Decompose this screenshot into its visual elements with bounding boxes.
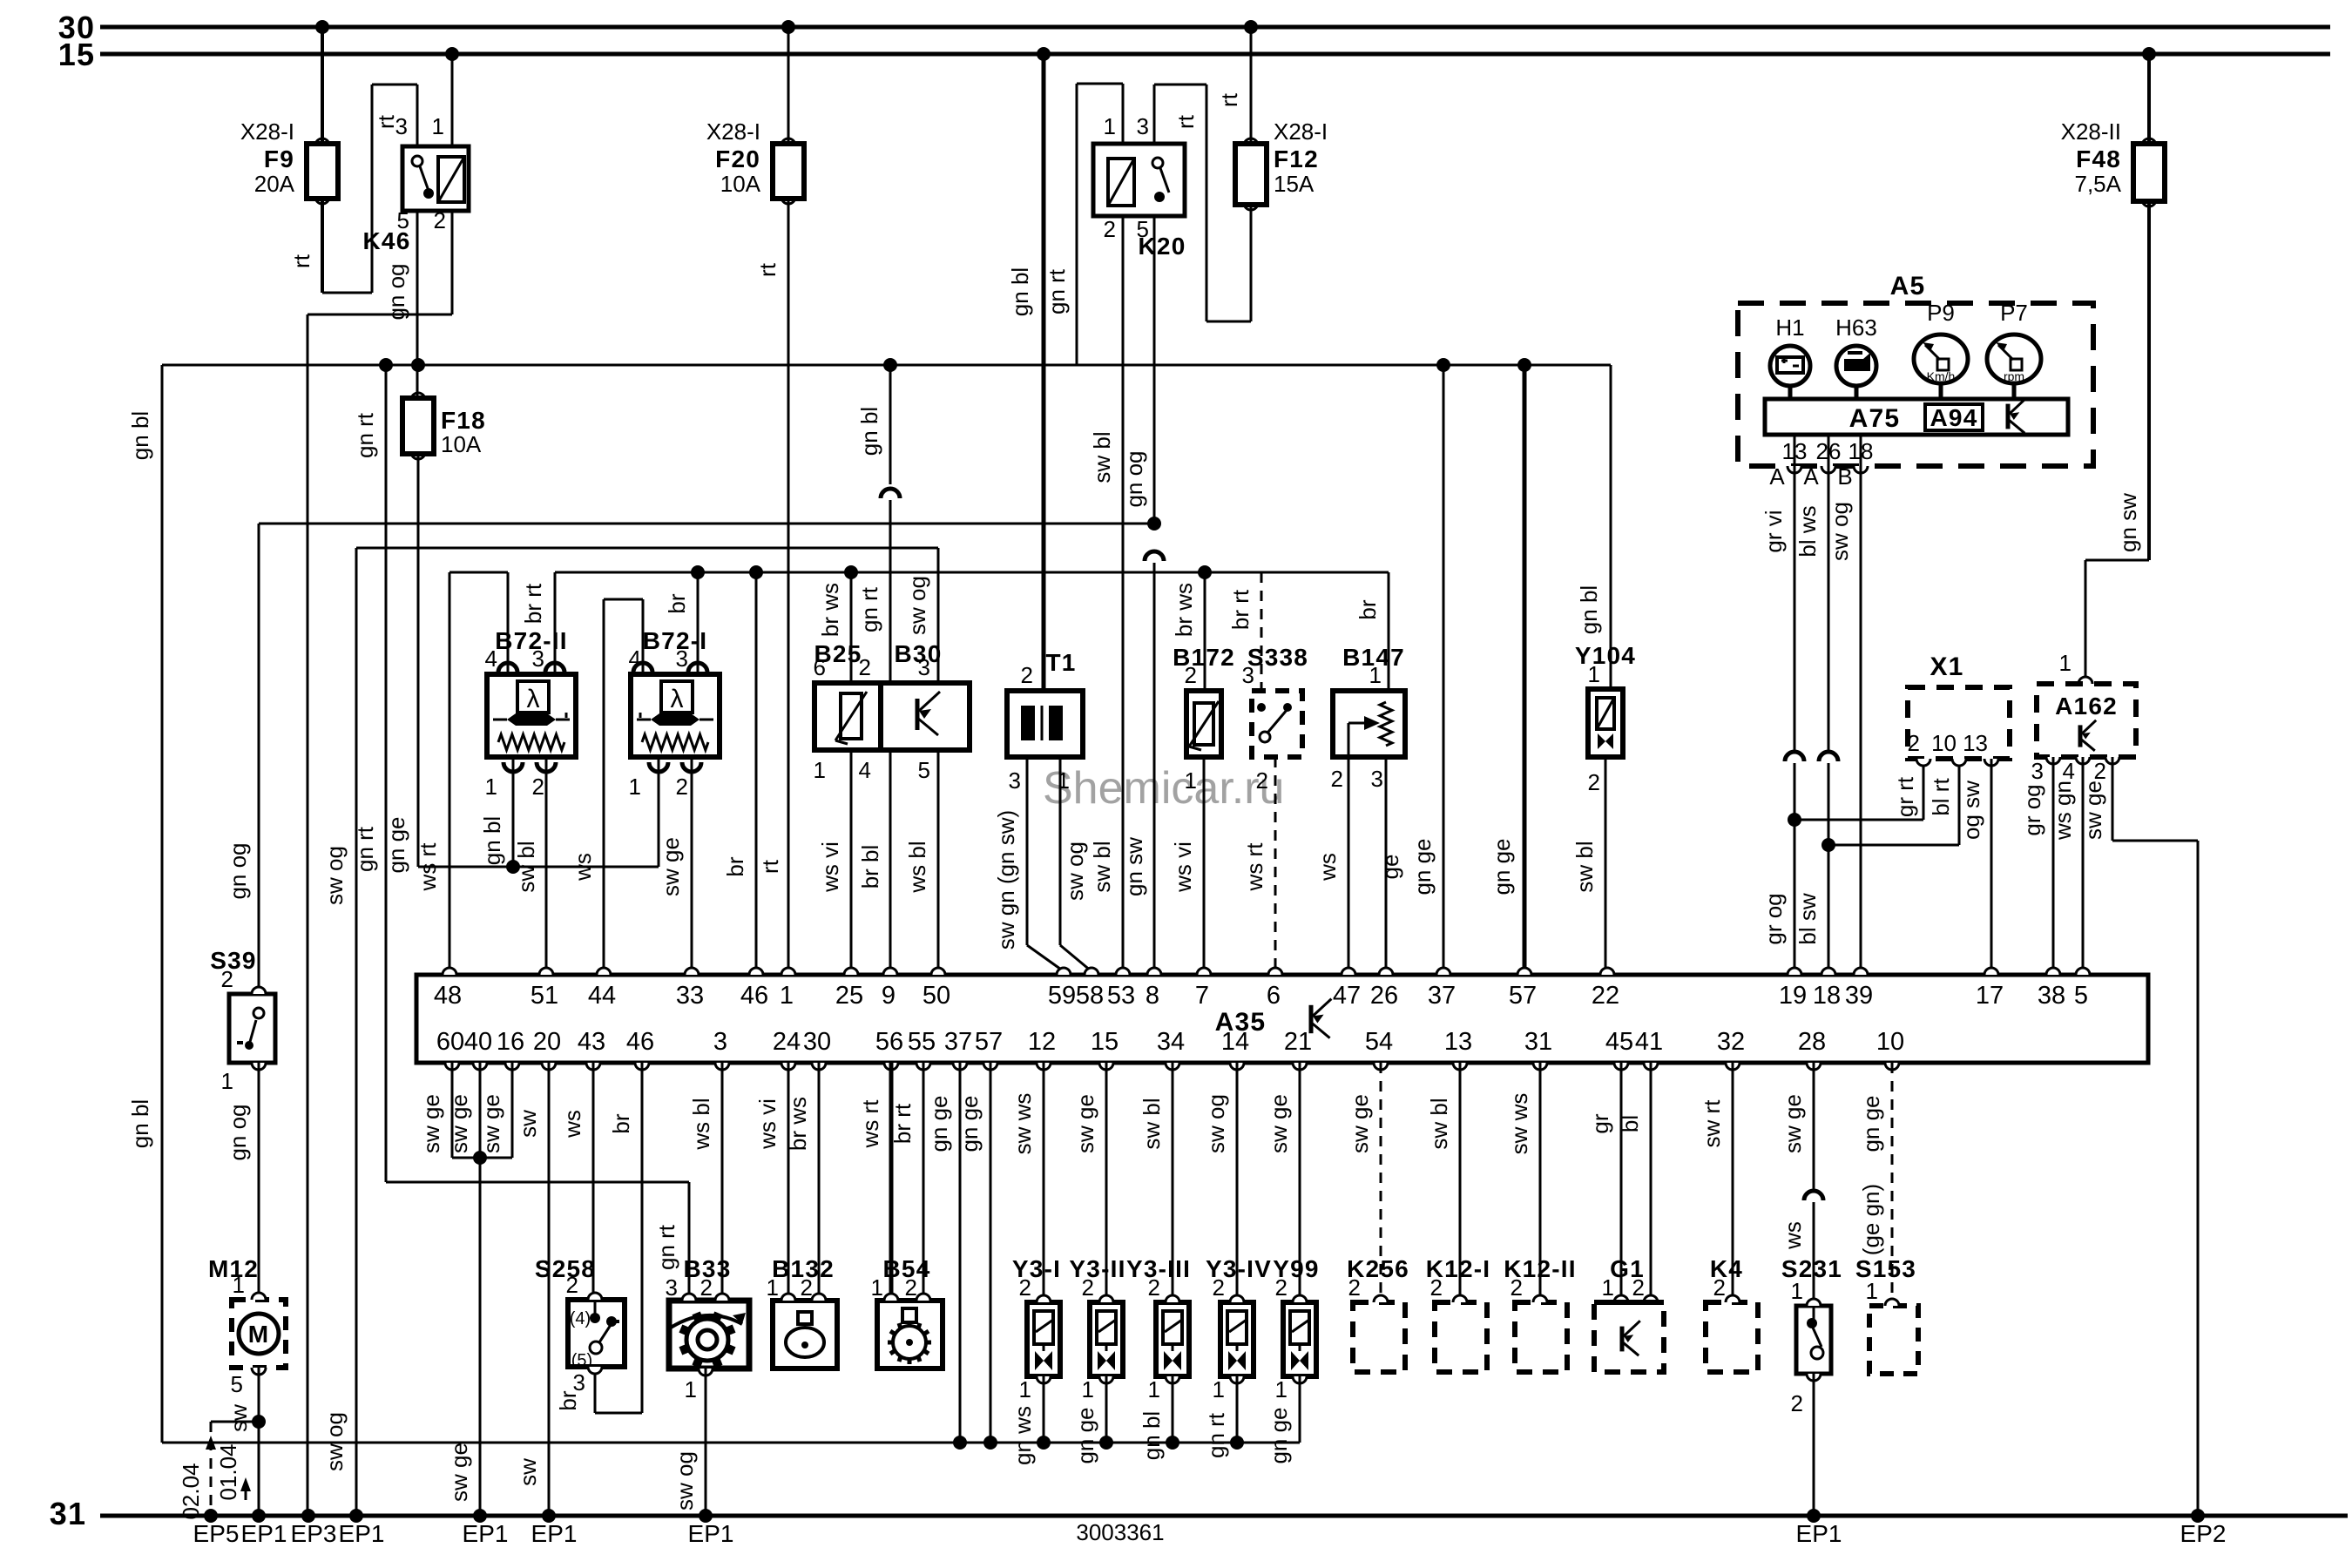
svg-text:30: 30 [803, 1028, 831, 1056]
relay K20 switch [1152, 158, 1169, 202]
wire K46 pin3 stub [416, 84, 419, 146]
svg-text:ge: ge [1377, 855, 1403, 880]
svg-text:sw ge: sw ge [1072, 1094, 1098, 1153]
svg-text:28: 28 [1798, 1028, 1826, 1056]
relay K20 coil [1108, 159, 1134, 206]
B132 pin bumps [781, 1294, 826, 1301]
wire 0204 link [211, 1421, 259, 1423]
switch S258 [535, 1255, 625, 1396]
wire B72-II pin3 [520, 572, 555, 674]
node br-B172 [1198, 565, 1212, 579]
node br-B25 [844, 565, 858, 579]
wire B72-I pin3 [664, 572, 698, 674]
wire pin57b [956, 1063, 990, 1443]
svg-text:bl sw: bl sw [1794, 893, 1821, 944]
wire pin60 [418, 1063, 452, 1158]
wire gnbl-gnrt drop [856, 365, 890, 484]
svg-text:λ: λ [671, 685, 684, 713]
relay K20 [1093, 113, 1186, 260]
wire K46 pin1 [451, 54, 454, 146]
wire gnbl horizontal [162, 364, 1611, 367]
ignition module T1 [1007, 649, 1083, 794]
S338 contacts [1257, 703, 1292, 742]
wire B72-I pin4 loop [570, 599, 643, 975]
svg-text:54: 54 [1365, 1028, 1393, 1056]
injector valve Y3-III [1126, 1255, 1191, 1402]
wire S39 to M12 [225, 1063, 259, 1300]
svg-text:sw ge: sw ge [446, 1094, 472, 1153]
Y3-I pin bumps [1037, 1295, 1051, 1383]
watermark [1043, 763, 1284, 814]
fuse F48 [2061, 118, 2165, 206]
ECU A35 [416, 975, 2148, 1063]
svg-text:1: 1 [871, 1274, 883, 1301]
wire Y104 pin2 [1571, 757, 1605, 975]
svg-text:13: 13 [1782, 438, 1808, 464]
A75 pin stubs [1782, 435, 1874, 466]
svg-text:20A: 20A [254, 171, 295, 197]
Y3-II pin bumps [1099, 1295, 1113, 1383]
svg-text:br ws: br ws [817, 583, 843, 637]
svg-text:56: 56 [875, 1028, 903, 1056]
G1 transistor [1622, 1321, 1640, 1355]
unit A162 [2037, 684, 2136, 757]
svg-text:λ: λ [527, 685, 540, 713]
wire B33 pin1 [672, 1369, 706, 1516]
B33 gear [671, 1311, 746, 1368]
wire Y3-IV pin1 [1203, 1376, 1237, 1458]
wire pin55 to B54 [889, 1063, 923, 1301]
node br-46 [749, 565, 763, 579]
svg-text:22: 22 [1592, 982, 1619, 1010]
svg-text:1: 1 [685, 1376, 697, 1402]
svg-text:10: 10 [1931, 730, 1957, 756]
wire F48 top [2147, 54, 2151, 144]
svg-text:19: 19 [1779, 982, 1807, 1010]
svg-text:B25: B25 [814, 640, 862, 667]
svg-text:46: 46 [740, 982, 768, 1010]
wire F9 to K46 pin3 [288, 84, 417, 293]
wire EP3 drop [307, 314, 309, 1516]
svg-text:55: 55 [908, 1028, 936, 1056]
wire gr og to pin19 [1761, 763, 1794, 975]
wire Y99 pin2 [1266, 1063, 1300, 1302]
svg-text:A75: A75 [1849, 404, 1901, 433]
unit A75 [1765, 399, 2068, 435]
bus 31 [100, 1514, 2348, 1518]
svg-text:3: 3 [1137, 113, 1149, 139]
svg-text:gn ws: gn ws [1010, 1406, 1036, 1465]
svg-text:EP1: EP1 [339, 1520, 385, 1547]
G1 top edge [1594, 1300, 1664, 1305]
svg-text:sw og: sw og [1062, 841, 1088, 901]
wire gn rt to B25 pin2 [856, 500, 890, 683]
wire B72-II pin1 [479, 757, 513, 867]
node 1750-419 [1517, 358, 1531, 372]
svg-text:53: 53 [1107, 982, 1135, 1010]
svg-text:47: 47 [1333, 982, 1361, 1010]
svg-text:S231: S231 [1781, 1255, 1842, 1282]
svg-text:br: br [664, 593, 690, 613]
svg-text:18: 18 [1813, 982, 1841, 1010]
wire gnog horizontal [259, 523, 1154, 525]
svg-text:rpm: rpm [2004, 369, 2024, 383]
wire F20 top [754, 27, 788, 277]
B72-I heater [637, 713, 713, 726]
wire A162 pin1 bump [2059, 650, 2092, 684]
wire ws to S231 [1780, 1202, 1814, 1306]
B147 wiper [1348, 716, 1380, 757]
wire B172 pin1 [1170, 757, 1204, 975]
B72-II pin arcs [498, 663, 564, 772]
svg-text:EP1: EP1 [531, 1520, 578, 1547]
svg-text:12: 12 [1028, 1028, 1056, 1056]
wire Y3-IV pin2 [1203, 1063, 1237, 1302]
svg-text:39: 39 [1845, 982, 1873, 1010]
unit A5 [1738, 272, 2093, 466]
B72-I lambda box [661, 681, 693, 713]
svg-text:sw ge: sw ge [418, 1094, 444, 1153]
svg-text:59: 59 [1048, 982, 1076, 1010]
svg-text:bl rt: bl rt [1928, 778, 1954, 816]
svg-text:1: 1 [1275, 1376, 1288, 1402]
svg-text:33: 33 [676, 982, 704, 1010]
svg-text:H63: H63 [1835, 314, 1877, 341]
wire Y3-II pin2 [1072, 1063, 1106, 1302]
svg-text:gn bl: gn bl [856, 407, 882, 456]
A35 top pins [434, 968, 2090, 1010]
svg-text:F9: F9 [264, 145, 294, 172]
svg-text:1: 1 [485, 774, 497, 800]
svg-text:6: 6 [1267, 982, 1281, 1010]
wire X1 pin13 to pin17 [1958, 759, 1991, 975]
svg-text:37: 37 [944, 1028, 972, 1056]
B54 sym [888, 1308, 931, 1364]
T1 coil bars [1021, 706, 1063, 740]
svg-text:2: 2 [1021, 662, 1033, 688]
relay K46 coil [438, 157, 464, 202]
sensor B172 [1173, 644, 1235, 794]
svg-text:10A: 10A [720, 171, 761, 197]
sensor B54 [871, 1255, 943, 1369]
svg-text:8: 8 [1146, 982, 1159, 1010]
injector valve Y3-II [1069, 1255, 1125, 1402]
svg-text:K12-II: K12-II [1504, 1255, 1576, 1282]
svg-text:sw ge: sw ge [1266, 1094, 1292, 1153]
svg-text:44: 44 [588, 982, 616, 1010]
svg-text:sw bl: sw bl [1139, 1098, 1165, 1149]
svg-text:B147: B147 [1342, 644, 1405, 671]
svg-text:13: 13 [1444, 1028, 1472, 1056]
svg-text:31: 31 [50, 1496, 86, 1531]
svg-text:(ge gn): (ge gn) [1858, 1184, 1884, 1255]
svg-text:ws vi: ws vi [754, 1098, 781, 1150]
svg-text:5: 5 [2074, 982, 2088, 1010]
svg-text:ws: ws [1315, 853, 1341, 882]
wire S39 drop [225, 524, 259, 994]
svg-text:3: 3 [1009, 767, 1021, 794]
bus 15 [100, 52, 2330, 57]
wire Y3-III pin2 [1139, 1063, 1173, 1302]
svg-text:br: br [608, 1113, 634, 1133]
svg-text:57: 57 [1509, 982, 1537, 1010]
svg-text:60: 60 [436, 1028, 464, 1056]
svg-text:sw bl: sw bl [513, 841, 539, 892]
svg-text:sw gn (gn sw): sw gn (gn sw) [993, 810, 1019, 950]
wire Y3-III pin1 [1139, 1376, 1173, 1460]
svg-text:B132: B132 [772, 1255, 835, 1282]
svg-text:15: 15 [1091, 1028, 1119, 1056]
svg-text:br rt: br rt [1227, 589, 1254, 630]
svg-text:7: 7 [1195, 982, 1209, 1010]
svg-text:br bl: br bl [857, 845, 883, 889]
svg-text:br rt: br rt [520, 583, 546, 624]
svg-text:K12-I: K12-I [1426, 1255, 1490, 1282]
wire S231 pin2 [1813, 1374, 1815, 1516]
B132 sym [786, 1312, 824, 1357]
fuse F18 [402, 393, 486, 459]
node rail-1346 [1166, 1436, 1179, 1450]
svg-text:K20: K20 [1139, 233, 1186, 260]
svg-text:og sw: og sw [1958, 781, 1984, 840]
svg-text:Y99: Y99 [1273, 1255, 1319, 1282]
svg-text:50: 50 [923, 982, 950, 1010]
wire K46 pin5 to F18 [383, 211, 417, 398]
svg-text:br ws: br ws [785, 1097, 811, 1151]
svg-text:H1: H1 [1775, 314, 1804, 341]
svg-text:7,5A: 7,5A [2075, 171, 2122, 197]
svg-text:2: 2 [1588, 769, 1600, 795]
svg-text:15: 15 [58, 37, 95, 72]
svg-text:gn bl: gn bl [127, 411, 153, 460]
svg-text:B33: B33 [684, 1255, 732, 1282]
svg-text:br rt: br rt [889, 1103, 916, 1144]
svg-text:gn rt: gn rt [1044, 268, 1070, 314]
B72-II heater [493, 713, 570, 726]
bus 30 label [58, 10, 95, 45]
B147 resistor [1380, 702, 1392, 746]
B72-I pin arcs [633, 663, 707, 772]
wire gnbl left drop [127, 365, 162, 1443]
wire pin10 to S153 [1858, 1063, 1892, 1306]
svg-text:gn ge: gn ge [1072, 1407, 1098, 1463]
wire Y3-I pin1 [1010, 1376, 1044, 1465]
svg-text:2: 2 [676, 774, 688, 800]
svg-text:EP3: EP3 [291, 1520, 337, 1547]
svg-text:2: 2 [2094, 758, 2106, 784]
fuse F20 [706, 118, 804, 204]
wire S338 pin2 [1241, 757, 1275, 975]
svg-text:EP1: EP1 [688, 1520, 734, 1547]
wire K20 pin3 stub [1153, 84, 1156, 144]
svg-text:1: 1 [780, 982, 794, 1010]
svg-text:gn sw: gn sw [2115, 493, 2141, 552]
wire 0104 marks [215, 1443, 251, 1500]
svg-text:EP2: EP2 [2180, 1520, 2227, 1547]
svg-text:br ws: br ws [1171, 583, 1197, 637]
svg-text:5: 5 [231, 1371, 243, 1397]
wire A162 pin3 to pin38 [2019, 757, 2053, 975]
svg-text:41: 41 [1635, 1028, 1663, 1056]
wire sw og to pin39 [1827, 466, 1861, 975]
svg-text:34: 34 [1157, 1028, 1185, 1056]
svg-text:S153: S153 [1855, 1255, 1916, 1282]
arc grvi [1785, 752, 1804, 761]
node 1657-419 [1436, 358, 1450, 372]
wire bl sw to pin18 [1794, 763, 1828, 975]
wire gr vi [1761, 466, 1794, 751]
arc s231 [1804, 1191, 1823, 1200]
svg-text:sw og: sw og [672, 1451, 698, 1511]
wire to X1 pin10 [1828, 759, 1959, 845]
A162 transistor [2080, 720, 2096, 751]
wire B72-II pin4 loop [415, 572, 508, 975]
wire pin46 to S258 pin3 [555, 1063, 642, 1413]
wire B147 pin2 [1315, 757, 1348, 975]
motor M12 [208, 1255, 286, 1397]
svg-text:gr og: gr og [2019, 784, 2045, 835]
svg-text:gr: gr [1587, 1113, 1613, 1133]
svg-text:2: 2 [1104, 216, 1116, 242]
svg-text:ws vi: ws vi [1170, 841, 1196, 893]
wire A162 pin2 swge [2080, 757, 2198, 1516]
svg-text:46: 46 [626, 1028, 654, 1056]
svg-text:51: 51 [531, 982, 558, 1010]
wire pin31 to K12-II [1506, 1063, 1540, 1302]
svg-text:58: 58 [1076, 982, 1104, 1010]
svg-text:1: 1 [2059, 650, 2072, 676]
A35 bottom pins [436, 1028, 1904, 1070]
node gnog-601 [1147, 517, 1161, 531]
svg-text:gn rt: gn rt [352, 826, 378, 872]
injector valve Y99 [1273, 1255, 1319, 1402]
arc gnsw [1145, 551, 1164, 561]
svg-text:sw og: sw og [321, 846, 348, 905]
svg-text:31: 31 [1524, 1028, 1552, 1056]
svg-text:sw ge: sw ge [658, 837, 684, 896]
svg-text:48: 48 [434, 982, 462, 1010]
svg-text:B: B [1837, 463, 1852, 490]
wire T1 gnbl [1007, 54, 1044, 691]
svg-text:16: 16 [497, 1028, 524, 1056]
svg-text:02.04: 02.04 [178, 1463, 204, 1519]
svg-text:gn rt: gn rt [653, 1224, 679, 1270]
wire gn sw to A162 pin1 [2085, 201, 2149, 684]
svg-text:13: 13 [1963, 730, 1988, 756]
svg-text:sw og: sw og [904, 576, 930, 635]
M12 pin bumps [252, 1293, 266, 1375]
svg-text:3: 3 [713, 1028, 727, 1056]
svg-text:EP1: EP1 [241, 1520, 287, 1547]
svg-text:gr vi: gr vi [1761, 510, 1787, 552]
svg-text:15A: 15A [1274, 171, 1315, 197]
svg-text:2: 2 [1908, 730, 1920, 756]
svg-text:X28-I: X28-I [706, 118, 760, 145]
node rail-1102 [953, 1436, 967, 1450]
wire K20 pin2 down [1089, 216, 1123, 975]
B30 transistor [917, 692, 940, 735]
node bus30-F20 [781, 20, 795, 34]
bus 15 label [58, 37, 95, 72]
svg-text:F20: F20 [715, 145, 760, 172]
svg-text:3: 3 [666, 1274, 678, 1301]
svg-text:sw og: sw og [1203, 1094, 1229, 1153]
wire pin56 to B54 [857, 1063, 891, 1301]
svg-text:3: 3 [573, 1369, 585, 1396]
svg-text:1: 1 [814, 757, 826, 783]
lambda probe B72-I [629, 627, 720, 800]
switch S153 [1855, 1255, 1918, 1374]
svg-text:gn sw: gn sw [1121, 837, 1147, 896]
svg-text:sw ge: sw ge [1780, 1094, 1806, 1153]
svg-text:Y3-IV: Y3-IV [1206, 1255, 1272, 1282]
drawing number [1076, 1519, 1164, 1545]
node bus30-F9 [315, 20, 329, 34]
relay K46 switch [412, 156, 434, 199]
S39 pin bumps [252, 987, 266, 1070]
svg-text:S338: S338 [1247, 644, 1308, 671]
svg-text:X28-II: X28-II [2061, 118, 2121, 145]
svg-text:40: 40 [464, 1028, 492, 1056]
B72-II lambda box [517, 681, 549, 713]
B72-II resistor [498, 734, 564, 750]
unit G1 [1594, 1255, 1664, 1372]
svg-text:bl ws: bl ws [1794, 505, 1821, 557]
svg-text:Shemicar.ru: Shemicar.ru [1043, 763, 1284, 814]
node M12 sw [252, 1415, 266, 1429]
fuse F9 [240, 118, 338, 204]
svg-text:EP5: EP5 [193, 1520, 240, 1547]
svg-text:3: 3 [1371, 766, 1383, 792]
svg-text:4: 4 [2063, 758, 2075, 784]
wire 0204 dashed [178, 1422, 216, 1520]
node blsw-970 [1821, 838, 1835, 852]
wire F18 down [383, 454, 418, 874]
svg-text:S39: S39 [210, 947, 256, 974]
svg-text:EP1: EP1 [463, 1520, 509, 1547]
svg-text:1: 1 [1082, 1376, 1094, 1402]
svg-text:37: 37 [1428, 982, 1456, 1010]
wire lambda gnd rail [418, 866, 659, 868]
svg-text:A5: A5 [1890, 272, 1926, 301]
svg-text:gn rt: gn rt [352, 412, 378, 458]
relay K12-I [1426, 1255, 1490, 1372]
svg-text:gn bl: gn bl [127, 1099, 153, 1148]
unit A94 [1925, 404, 1983, 431]
svg-text:gn ge: gn ge [1409, 838, 1436, 895]
wire to X1 pin2 [1794, 759, 1923, 820]
svg-text:gn ge: gn ge [926, 1095, 952, 1152]
svg-text:2: 2 [1256, 767, 1268, 794]
wire F9 top [321, 27, 324, 144]
relay K46 [363, 113, 469, 254]
wire pin20 [515, 1063, 549, 1516]
svg-text:ws: ws [570, 853, 596, 882]
svg-text:1: 1 [432, 113, 444, 139]
svg-text:10: 10 [1876, 1028, 1904, 1056]
wire br to pin46 [722, 572, 756, 975]
svg-text:sw bl: sw bl [1426, 1098, 1452, 1149]
svg-text:38: 38 [2038, 982, 2065, 1010]
wire swog drop [321, 548, 356, 1516]
svg-text:gn ge: gn ge [383, 816, 409, 873]
svg-text:gn bl: gn bl [479, 816, 505, 865]
wire T1 pin1 [1060, 757, 1092, 975]
svg-text:sw bl: sw bl [1089, 431, 1115, 483]
svg-text:X28-I: X28-I [240, 118, 294, 145]
svg-text:K256: K256 [1347, 1255, 1409, 1282]
wire pin3 ws bl to B33 pin2 [688, 1063, 722, 1301]
